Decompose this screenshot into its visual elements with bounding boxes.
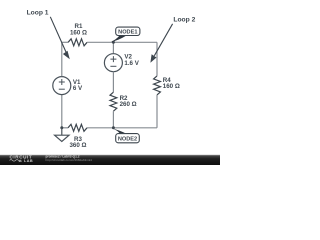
wire bottom-middle segment (87, 127, 113, 129)
svg-text:NODE2: NODE2 (118, 136, 137, 142)
wire right upper segment (156, 42, 158, 76)
loop annotation Loop 1 arrow (50, 17, 70, 59)
svg-text:NODE1: NODE1 (118, 29, 137, 35)
wire right lower segment (156, 95, 158, 128)
wire middle top segment (112, 42, 114, 53)
wire left upper segment (61, 42, 63, 76)
node label NODE1 (111, 27, 140, 42)
voltage source V1 (53, 77, 71, 95)
wire bottom-right segment (113, 127, 157, 129)
svg-text:6 V: 6 V (73, 85, 83, 92)
svg-text:Loop 1: Loop 1 (27, 9, 49, 16)
resistor R1 (68, 39, 87, 46)
wire middle bottom segment (112, 111, 114, 128)
loop annotation Loop 2 arrow (150, 24, 172, 63)
svg-text:360 Ω: 360 Ω (69, 142, 86, 149)
svg-text:Loop 2: Loop 2 (173, 16, 195, 23)
svg-text:160 Ω: 160 Ω (70, 29, 87, 36)
wire top-right segment (87, 41, 157, 43)
svg-text:LAB: LAB (24, 159, 33, 163)
svg-text:1.6 V: 1.6 V (124, 60, 139, 67)
junction node bottom (NODE2) (112, 126, 115, 129)
junction node bottom-left (60, 126, 63, 129)
svg-text:260 Ω: 260 Ω (120, 101, 137, 108)
wire middle segment between V2 and R2 (112, 72, 114, 93)
voltage source V2 (104, 54, 122, 72)
resistor R4 (154, 76, 161, 95)
resistor R3 (68, 124, 87, 131)
wire left lower segment (61, 95, 63, 128)
node label NODE2 (111, 128, 139, 143)
wire top-left segment (62, 41, 68, 43)
CircuitLab logo (10, 155, 34, 163)
svg-text:160 Ω: 160 Ω (163, 83, 180, 90)
ground (55, 128, 69, 142)
junction node top (NODE1) (112, 41, 115, 44)
wire bottom-left segment (62, 127, 68, 129)
resistor R2 (110, 92, 117, 111)
svg-text:http://circuitlab.com/c/2682ab: http://circuitlab.com/c/2682ab3mk4 (46, 158, 93, 162)
